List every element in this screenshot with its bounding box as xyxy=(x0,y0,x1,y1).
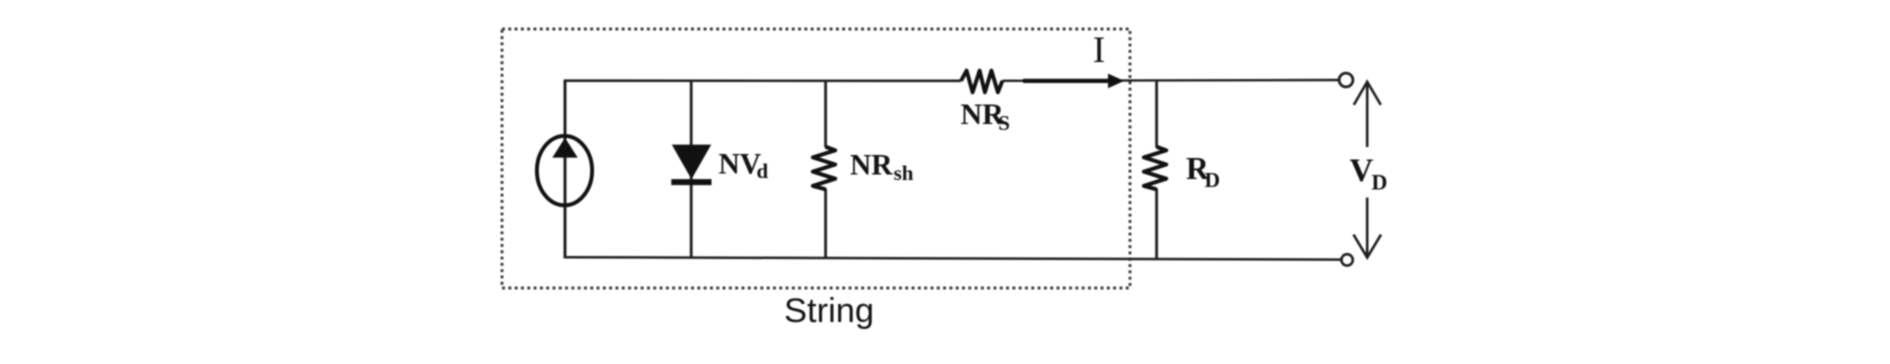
wire current-source branch xyxy=(564,80,567,259)
label String xyxy=(784,292,874,330)
resistor NRS xyxy=(961,71,1002,93)
svg-text:D: D xyxy=(1372,170,1388,195)
svg-text:NR: NR xyxy=(850,150,893,182)
bottom terminal xyxy=(1341,254,1352,265)
svg-text:D: D xyxy=(1205,168,1221,192)
svg-text:sh: sh xyxy=(894,161,914,185)
VD arrow down xyxy=(1354,198,1382,258)
svg-text:d: d xyxy=(757,159,769,183)
String boundary dotted box xyxy=(502,29,1130,288)
diode NVd symbol xyxy=(671,145,711,186)
resistor RD xyxy=(1144,147,1166,190)
svg-text:V: V xyxy=(1350,153,1374,189)
top terminal xyxy=(1339,73,1353,87)
wire diode branch xyxy=(690,80,693,259)
wire NRsh branch lower xyxy=(824,189,827,259)
label VD xyxy=(1350,153,1388,194)
svg-text:S: S xyxy=(998,111,1010,135)
svg-text:NV: NV xyxy=(719,148,762,180)
label NRsh xyxy=(850,150,914,185)
label RD xyxy=(1186,151,1220,192)
wire RD branch lower xyxy=(1155,189,1158,261)
label NRS xyxy=(961,98,1010,135)
wire RD branch upper xyxy=(1155,80,1158,148)
svg-text:I: I xyxy=(1093,30,1105,71)
svg-text:String: String xyxy=(784,292,874,330)
wire bottom bus xyxy=(565,257,1341,259)
label NVd xyxy=(719,148,769,183)
label I xyxy=(1093,30,1105,71)
VD arrow up xyxy=(1354,82,1381,147)
resistor NRsh xyxy=(813,147,835,190)
wire NRsh branch upper xyxy=(824,80,827,148)
wire top bus xyxy=(565,79,1340,82)
current arrow I xyxy=(1023,74,1124,89)
current source I_ph xyxy=(537,136,592,205)
